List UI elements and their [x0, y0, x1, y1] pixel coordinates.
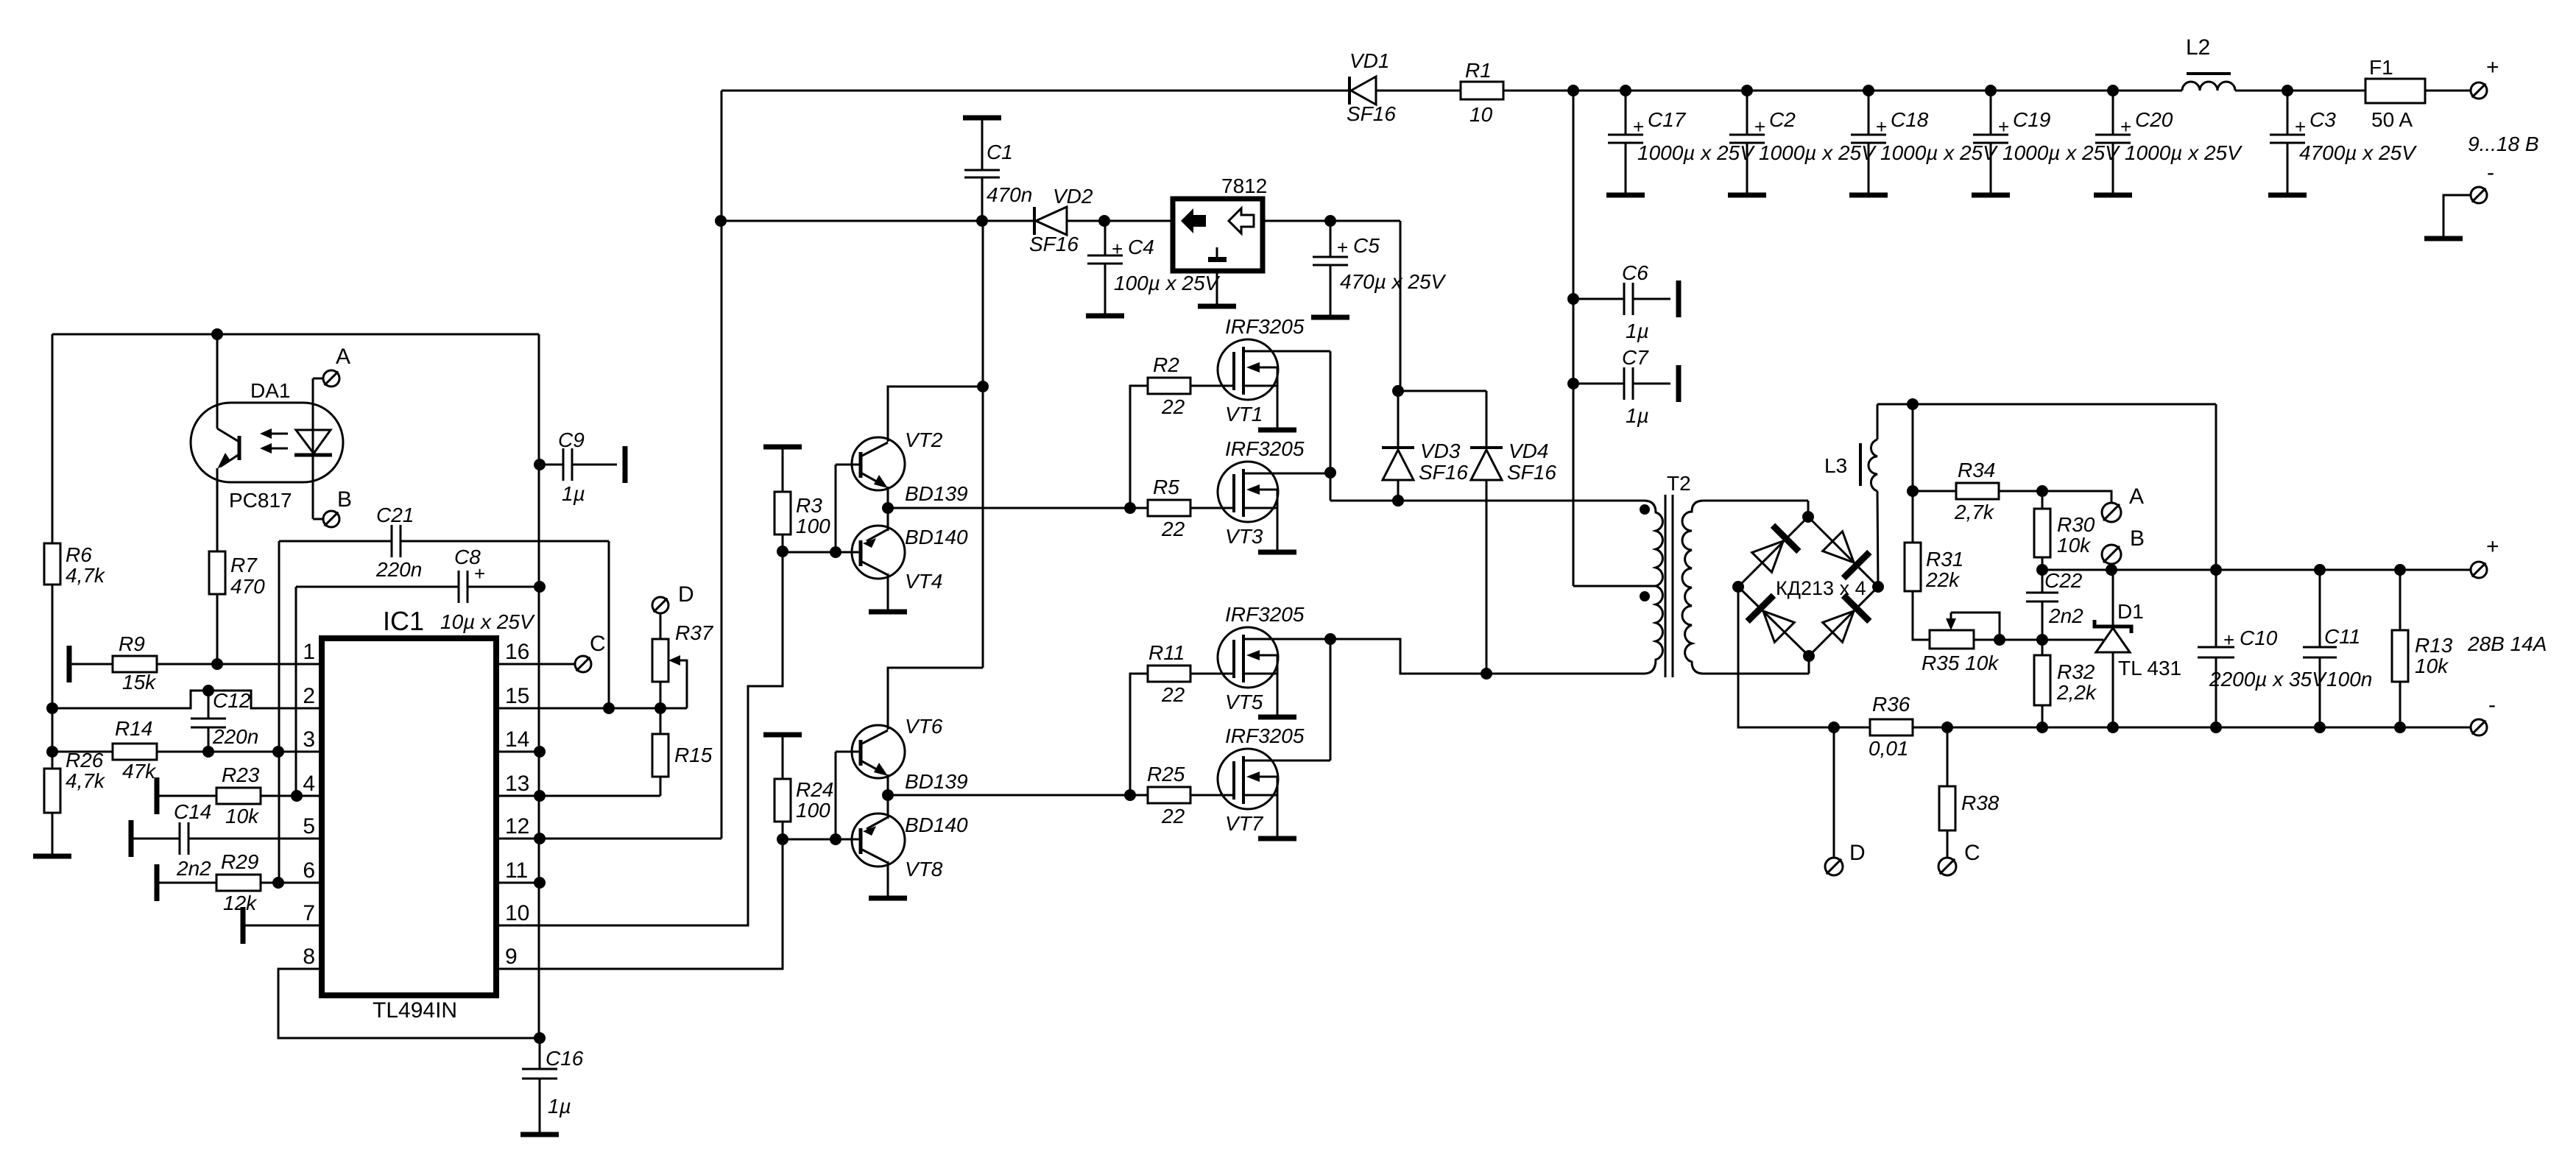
junction dot C17 tap — [1620, 85, 1631, 96]
svg-text:12: 12 — [505, 814, 529, 839]
svg-text:VD2: VD2 — [1053, 185, 1093, 208]
svg-text:+: + — [2295, 116, 2306, 138]
junction dot VT5 drain tie — [1324, 633, 1336, 645]
svg-text:R34: R34 — [1958, 459, 1995, 481]
svg-text:BD139: BD139 — [905, 770, 968, 793]
diode D1 TL431 — [2112, 570, 2114, 625]
svg-text:R3: R3 — [796, 494, 822, 517]
svg-text:15: 15 — [505, 684, 529, 708]
wire pin1 to IC1 — [157, 663, 322, 666]
op-amp 7812 regulator box — [1173, 199, 1263, 271]
svg-text:C18: C18 — [1891, 108, 1929, 131]
wire pin11 stub — [496, 882, 540, 884]
svg-text:L3: L3 — [1824, 454, 1847, 477]
transistor VT6 BD139 — [852, 725, 905, 778]
junction dot C8 right — [534, 581, 546, 593]
capacitor C17 — [1625, 91, 1627, 135]
diode VD1 SF16 — [1348, 77, 1351, 105]
svg-text:100: 100 — [796, 515, 830, 537]
resistor R13 — [2399, 570, 2402, 630]
junction dot base node A — [777, 546, 788, 557]
wire R15 leads — [660, 708, 662, 734]
svg-text:470µ x 25V: 470µ x 25V — [1340, 270, 1447, 293]
svg-text:2n2: 2n2 — [2048, 604, 2083, 627]
transistor inside DA1 (photo-transistor) — [216, 403, 219, 428]
svg-text:C19: C19 — [2013, 108, 2050, 131]
svg-text:47k: 47k — [122, 760, 157, 783]
transformer T2 primary winding — [1644, 501, 1662, 674]
junction dot C16 node — [534, 1032, 546, 1044]
wire pin16 to C terminal — [496, 663, 575, 666]
junction dot VD3 top — [1392, 385, 1404, 397]
wire pin9 to driver B base net — [496, 822, 783, 969]
svg-text:VT8: VT8 — [905, 858, 943, 881]
junction dot C10 + — [2210, 564, 2222, 576]
wire VT1 drain riser — [1330, 351, 1332, 501]
capacitor C2 — [1746, 91, 1748, 135]
svg-text:R7: R7 — [230, 554, 258, 576]
svg-text:4,7k: 4,7k — [66, 769, 106, 792]
rail bar right of C9 — [623, 446, 628, 483]
wire pin14 stub — [496, 751, 540, 753]
svg-text:VT2: VT2 — [905, 428, 943, 451]
node output - terminal — [2471, 719, 2487, 735]
svg-text:C6: C6 — [1622, 261, 1648, 284]
wire VT7 drain riser — [1330, 639, 1332, 761]
diode VD3 SF16 — [1397, 391, 1400, 449]
svg-text:C5: C5 — [1353, 234, 1380, 257]
svg-text:R13: R13 — [2415, 634, 2453, 657]
junction dot B/TL431 rail — [2106, 564, 2117, 576]
op-amp DA1 body (optocoupler PC817 outline) — [191, 403, 343, 482]
junction dot C18 tap — [1863, 85, 1874, 96]
svg-text:D: D — [1849, 841, 1866, 865]
junction dot VD3 on primary top — [1392, 495, 1404, 507]
wire pin6 left — [157, 882, 216, 884]
svg-text:IRF3205: IRF3205 — [1225, 603, 1305, 626]
phase dot T2 primary lower — [1640, 591, 1650, 601]
junction dot C2 tap — [1741, 85, 1753, 96]
arrow filled inside 7812 — [1181, 208, 1206, 233]
svg-text:R38: R38 — [1961, 791, 2000, 814]
svg-text:13: 13 — [505, 772, 529, 796]
svg-text:14: 14 — [505, 727, 529, 752]
svg-text:7812: 7812 — [1221, 174, 1267, 197]
svg-text:C10: C10 — [2240, 627, 2278, 649]
transistor VT7 IRF3205 — [1218, 749, 1278, 809]
wire D to R37 — [660, 613, 662, 639]
svg-text:1µ: 1µ — [562, 482, 585, 505]
svg-text:9: 9 — [505, 945, 518, 969]
svg-text:T2: T2 — [1667, 472, 1691, 495]
junction dot C riser — [1941, 721, 1953, 733]
svg-text:SF16: SF16 — [1507, 461, 1556, 484]
svg-text:22: 22 — [1161, 683, 1185, 706]
svg-text:C2: C2 — [1769, 108, 1796, 131]
svg-text:PC817: PC817 — [229, 489, 292, 512]
wire R26 to ground — [52, 814, 54, 856]
transistor VT5 IRF3205 — [1218, 627, 1278, 688]
svg-text:BD140: BD140 — [905, 526, 968, 548]
ground bar VT1 — [1258, 428, 1296, 433]
junction dot VT3 drain tie — [1324, 467, 1336, 479]
wiper of R37 — [674, 660, 687, 708]
capacitor C6 — [1573, 298, 1624, 300]
wire right column x733 (pins 14-11 / C9 / C8 common) — [538, 334, 540, 1038]
wire pin6 to IC1 — [261, 882, 322, 884]
svg-text:1µ: 1µ — [1626, 404, 1649, 427]
wire R25 to VT7 gate — [1191, 794, 1234, 797]
svg-text:10: 10 — [505, 901, 529, 925]
ground bar C4 — [1086, 314, 1124, 319]
rail bar pin4 — [155, 777, 160, 814]
svg-text:C7: C7 — [1622, 346, 1649, 369]
svg-text:22k: 22k — [1925, 568, 1961, 591]
wire gate riser to R11 — [1130, 674, 1148, 795]
wire output top link — [1877, 403, 2216, 406]
resistor R37 (trimmer) — [652, 639, 668, 682]
resistor R35 (trimmer) — [1930, 630, 1974, 649]
svg-text:28В 14А: 28В 14А — [2467, 632, 2547, 655]
ground bar under R26 — [33, 854, 71, 859]
junction dot C9 tap — [534, 459, 546, 470]
svg-text:6: 6 — [303, 858, 315, 883]
svg-text:VD4: VD4 — [1508, 440, 1548, 462]
svg-text:10k: 10k — [2057, 534, 2092, 557]
junction dot R13 + — [2394, 564, 2406, 576]
junction dot pin12 — [534, 833, 546, 844]
svg-text:VT4: VT4 — [905, 570, 942, 593]
svg-text:VT3: VT3 — [1225, 525, 1263, 548]
svg-text:100: 100 — [796, 799, 830, 822]
svg-text:22: 22 — [1161, 805, 1185, 827]
svg-text:-: - — [2487, 160, 2494, 185]
svg-text:4: 4 — [303, 772, 315, 796]
junction dot bridge left — [1732, 581, 1744, 593]
svg-text:SF16: SF16 — [1419, 461, 1468, 484]
wire secondary top to bridge — [1704, 500, 1808, 502]
svg-text:BD139: BD139 — [905, 482, 968, 505]
wire VT6 emitter to node — [887, 774, 889, 795]
node battery - terminal — [2471, 187, 2487, 203]
wire driver B node to gates — [888, 794, 1148, 797]
svg-text:C16: C16 — [546, 1047, 584, 1070]
junction dot TL431 anode — [2107, 721, 2119, 733]
ground bar 7812 — [1198, 304, 1236, 309]
svg-text:1000µ x 25V: 1000µ x 25V — [2002, 141, 2120, 164]
junction dot node K1 / DA1 collector feed — [211, 328, 223, 340]
wire base node A to VT4 base — [783, 551, 859, 554]
resistor R31 — [1912, 404, 1914, 543]
svg-text:470: 470 — [230, 575, 265, 598]
capacitor C19 — [1990, 91, 1992, 135]
wire VT3 source to ground — [1277, 508, 1279, 552]
resistor R36 — [1870, 719, 1913, 735]
ground bar battery - — [2424, 236, 2463, 241]
diode VD2 SF16 — [1033, 207, 1036, 235]
svg-text:2,7k: 2,7k — [1954, 501, 1995, 523]
svg-text:2200µ x 35V: 2200µ x 35V — [2209, 668, 2327, 691]
wire VD3-VD4 top link — [1398, 390, 1486, 392]
wire VT2 emitter to node — [887, 487, 889, 508]
wire secondary bottom to bridge — [1704, 673, 1809, 675]
wire R38 top — [1947, 727, 1949, 786]
svg-text:1000µ x 25V: 1000µ x 25V — [2125, 141, 2242, 164]
svg-text:+: + — [1754, 116, 1765, 138]
svg-text:IRF3205: IRF3205 — [1225, 315, 1305, 338]
svg-text:+: + — [1337, 236, 1348, 258]
svg-text:+: + — [1998, 116, 2009, 138]
wire R30 bottom — [2042, 558, 2044, 570]
svg-text:1000µ x 25V: 1000µ x 25V — [1759, 141, 1877, 164]
junction dot R32 - — [2036, 721, 2048, 733]
junction dot R7/pin1 — [211, 658, 223, 670]
wire collector supply riser — [982, 221, 984, 668]
junction dot VT2 collector tie — [977, 381, 989, 392]
junction dot base node B — [777, 833, 788, 845]
svg-text:IRF3205: IRF3205 — [1225, 724, 1305, 747]
svg-text:1µ: 1µ — [548, 1095, 571, 1118]
rail bar C1 top — [963, 116, 1001, 121]
fuse F1 — [2365, 79, 2425, 103]
junction dot VD3 bottom — [1392, 495, 1404, 507]
diode bridge D-a (left-top arm) — [1748, 526, 1799, 576]
wire VT2 base — [836, 464, 861, 466]
svg-text:C11: C11 — [2324, 625, 2360, 648]
wire VT5 source to ground — [1277, 674, 1279, 717]
svg-text:SF16: SF16 — [1347, 102, 1396, 125]
svg-text:7: 7 — [303, 901, 315, 925]
svg-text:R31: R31 — [1926, 548, 1963, 571]
svg-text:VD3: VD3 — [1420, 440, 1461, 462]
wire 7812 output riser to VD3/VD4 — [1400, 221, 1402, 391]
junction dot R30 top — [2036, 485, 2048, 497]
wire +28V rail — [2042, 569, 2471, 571]
svg-text:D: D — [678, 582, 694, 607]
svg-text:R15: R15 — [674, 744, 713, 766]
wire pin8 to C16 node — [278, 969, 540, 1038]
node B terminal stub — [313, 518, 324, 520]
junction dot C7 tap — [1567, 378, 1579, 389]
junction dot pin11 — [534, 877, 546, 889]
svg-text:100n: 100n — [2326, 668, 2372, 691]
svg-text:R1: R1 — [1465, 59, 1492, 82]
node A terminal — [323, 370, 339, 387]
wire R37 bottom — [660, 682, 662, 708]
wire top rail of left block (node K1) — [52, 334, 539, 336]
wire R31 bottom to R35 — [1913, 592, 1930, 640]
inductor L3 — [1877, 404, 1879, 440]
node A terminal stub — [313, 378, 324, 380]
rail bar C7 — [1676, 365, 1682, 402]
svg-text:SF16: SF16 — [1029, 233, 1079, 255]
ground bar VT3 — [1258, 550, 1296, 555]
junction dot R31 top — [1907, 398, 1919, 410]
wire -28V rail — [1738, 587, 1870, 727]
resistor R7 — [209, 551, 225, 594]
wire pin3 — [52, 751, 113, 753]
wire pin13 to R15 — [496, 795, 660, 797]
junction dot C1 bottom — [976, 215, 988, 227]
junction dot ref node — [2036, 634, 2048, 646]
svg-text:R11: R11 — [1148, 641, 1185, 664]
wire R3 bottom to base node — [782, 534, 784, 551]
junction dot VT6/VT8 base tie — [830, 833, 841, 845]
junction dot driver A output node — [882, 502, 894, 514]
ground bar VT5 — [1258, 715, 1296, 720]
svg-text:C12: C12 — [213, 689, 251, 712]
junction dot bridge right — [1872, 581, 1884, 593]
svg-text:R35 10k: R35 10k — [1922, 652, 2000, 674]
transistor VT1 IRF3205 — [1218, 339, 1278, 400]
resistor R26 — [44, 769, 60, 813]
transistor VT3 IRF3205 — [1218, 462, 1278, 522]
wire base node B to VT8 base — [783, 839, 859, 841]
capacitor C22 — [2042, 570, 2044, 593]
svg-text:VT5: VT5 — [1225, 691, 1263, 713]
ground bar C16 — [521, 1132, 559, 1137]
wire pin7 — [243, 925, 322, 927]
junction dot C21 leg pin3 — [272, 746, 284, 758]
junction dot R34 tap — [1907, 485, 1919, 497]
wire VD2 net (7812 input) — [721, 220, 1034, 222]
svg-text:R29: R29 — [221, 850, 258, 873]
svg-text:8: 8 — [303, 945, 315, 969]
svg-text:470n: 470n — [987, 183, 1032, 206]
svg-text:B: B — [337, 487, 352, 512]
wire R38 bottom — [1947, 830, 1949, 857]
resistor R25 — [1148, 787, 1190, 803]
diode bridge D-b (top-right arm) — [1819, 528, 1869, 578]
wire DA1 collector riser — [216, 334, 219, 403]
svg-text:+: + — [2486, 534, 2499, 559]
node B output terminal — [2102, 545, 2121, 564]
svg-text:R14: R14 — [115, 717, 152, 740]
svg-text:C20: C20 — [2135, 108, 2173, 131]
svg-text:2n2: 2n2 — [176, 857, 211, 880]
resistor R11 — [1148, 666, 1190, 682]
capacitor C7 — [1573, 383, 1624, 385]
node C terminal (IC1 pin16) — [575, 656, 591, 672]
svg-text:1µ: 1µ — [1626, 320, 1649, 342]
wire VT6 collector — [888, 668, 983, 730]
junction dot VD2 net / riser — [715, 215, 727, 227]
junction dot R37/R15 node — [654, 702, 666, 714]
svg-text:R24: R24 — [796, 778, 833, 801]
capacitor C12 — [208, 691, 210, 719]
wire R7 bottom to pin1 net — [216, 595, 219, 664]
wire R3 top lead — [782, 447, 784, 491]
junction dot C6 tap — [1567, 293, 1579, 305]
svg-text:R25: R25 — [1147, 763, 1185, 786]
svg-text:-: - — [2488, 693, 2496, 717]
resistor R34 — [1956, 483, 1999, 499]
junction dot pin13 — [534, 790, 546, 802]
wire R35 right to ref node — [1974, 639, 2103, 641]
svg-text:+: + — [2486, 55, 2499, 80]
junction dot gate net B — [1124, 789, 1136, 801]
capacitor C1 — [981, 120, 984, 170]
svg-text:A: A — [2129, 484, 2144, 509]
node A output terminal — [2102, 503, 2121, 522]
arrow outline inside 7812 — [1229, 208, 1254, 233]
svg-text:220n: 220n — [212, 725, 258, 748]
svg-text:КД213 х 4: КД213 х 4 — [1776, 577, 1866, 599]
wire pin4 left — [157, 795, 216, 797]
junction dot VT2/VT4 base tie — [830, 546, 841, 558]
rail bar R3 top — [763, 445, 802, 450]
svg-text:F1: F1 — [2369, 56, 2393, 79]
wire R13 bottom — [2399, 682, 2402, 727]
svg-text:16: 16 — [505, 640, 529, 664]
junction dot pin2 net at x71 — [46, 702, 58, 714]
wire gate riser to R2 — [1130, 386, 1148, 508]
rail bar pin7 — [241, 907, 246, 944]
resistor R32 — [2042, 640, 2044, 655]
svg-text:4,7k: 4,7k — [66, 564, 106, 587]
resistor R6 — [44, 543, 60, 585]
svg-text:+: + — [474, 562, 485, 585]
svg-text:R5: R5 — [1153, 476, 1179, 498]
svg-text:VT1: VT1 — [1225, 403, 1263, 426]
wire B to rail — [2111, 564, 2113, 570]
wire VT7 source to ground — [1277, 795, 1279, 839]
junction dot VD4 bottom — [1481, 668, 1492, 680]
svg-text:IC1: IC1 — [383, 606, 424, 636]
svg-text:C17: C17 — [1648, 108, 1687, 131]
capacitor C21 — [279, 540, 392, 543]
svg-text:+: + — [1633, 116, 1644, 138]
svg-text:10: 10 — [1469, 103, 1493, 126]
svg-text:5: 5 — [303, 814, 315, 839]
svg-text:TL 431: TL 431 — [2118, 657, 2181, 680]
capacitor C10 — [2215, 570, 2217, 647]
junction dot R13 - — [2394, 721, 2406, 733]
svg-text:R37: R37 — [675, 621, 714, 644]
svg-text:+: + — [1112, 238, 1123, 260]
wire VT2 base drop — [835, 465, 837, 552]
diode bridge D-c (left-bottom arm) — [1748, 596, 1798, 646]
svg-text:L2: L2 — [2186, 35, 2210, 60]
svg-text:B: B — [2130, 526, 2145, 551]
op-amp IC1 TL494IN box — [322, 638, 496, 995]
svg-text:C4: C4 — [1128, 236, 1154, 258]
svg-text:1: 1 — [303, 640, 315, 664]
wire C8 left lead down to pin4 — [295, 587, 297, 796]
svg-text:VT6: VT6 — [905, 715, 943, 738]
light arrows DA1 — [267, 433, 288, 435]
svg-text:220n: 220n — [375, 558, 422, 581]
capacitor C11 — [2319, 570, 2321, 647]
rail bar R24 top — [763, 733, 802, 738]
resistor R9 — [113, 656, 157, 672]
capacitor C5 — [1330, 221, 1332, 257]
svg-text:0,01: 0,01 — [1869, 737, 1909, 760]
wire VT1 source to ground — [1277, 386, 1279, 430]
svg-text:D1: D1 — [2117, 600, 2144, 623]
junction dot C3 tap — [2282, 85, 2293, 96]
junction dot R30/C22 node — [2036, 564, 2048, 576]
resistor R30 — [2042, 491, 2044, 508]
svg-text:+: + — [1876, 116, 1887, 138]
junction dot gate net A — [1124, 502, 1136, 514]
resistor R14 — [113, 744, 157, 760]
wire driver A node to gates — [888, 507, 1148, 509]
svg-text:R9: R9 — [119, 632, 145, 655]
svg-text:R2: R2 — [1153, 353, 1179, 376]
wire R6 bottom to R26 — [52, 585, 54, 769]
wire pin4 to IC1 — [261, 795, 322, 797]
